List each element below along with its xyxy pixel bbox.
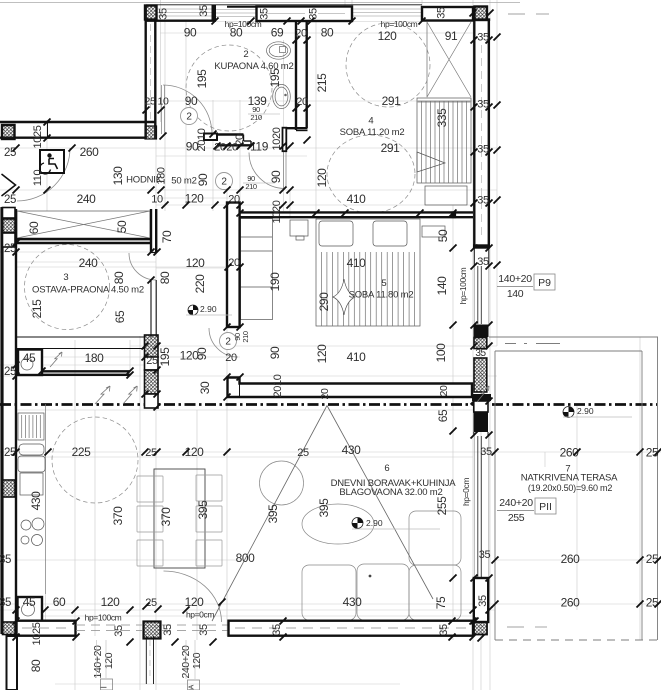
svg-text:5: 5 [381, 278, 386, 289]
svg-text:240: 240 [79, 256, 99, 270]
zigzag electrical symbols [50, 352, 62, 367]
svg-text:395: 395 [196, 500, 210, 520]
svg-text:120: 120 [185, 595, 205, 609]
svg-text:60: 60 [53, 595, 66, 609]
black band under top-right pier [473, 18, 490, 21]
svg-text:370: 370 [159, 507, 173, 527]
svg-text:35: 35 [113, 625, 125, 637]
svg-text:800: 800 [236, 551, 256, 565]
svg-text:215: 215 [315, 73, 329, 93]
svg-text:195: 195 [268, 68, 282, 88]
svg-text:2: 2 [243, 49, 248, 60]
horizontal dimension guide lines [156, 21, 475, 23]
svg-text:430: 430 [343, 595, 363, 609]
svg-text:hp=0cm: hp=0cm [186, 610, 214, 620]
svg-text:50: 50 [436, 229, 450, 242]
wall left-top vertical [144, 5, 146, 140]
window hp=0cm east [474, 436, 489, 578]
svg-text:30: 30 [198, 381, 212, 394]
east wall double lines upper [473, 20, 475, 248]
svg-text:260: 260 [80, 145, 100, 159]
svg-text:180: 180 [85, 351, 105, 365]
chair triangle room4 [417, 152, 445, 172]
svg-text:I: I [100, 686, 109, 688]
svg-text:hp=100cm: hp=100cm [225, 19, 262, 29]
svg-text:60: 60 [27, 221, 41, 234]
left wall bottom tail box [7, 636, 18, 690]
svg-text:25: 25 [297, 447, 309, 459]
svg-text:PII: PII [539, 501, 552, 513]
svg-text:430: 430 [29, 491, 43, 511]
svg-text:80: 80 [29, 659, 43, 672]
svg-text:1020: 1020 [271, 200, 283, 223]
svg-text:255: 255 [435, 496, 449, 516]
svg-text:120: 120 [378, 29, 398, 43]
svg-text:25: 25 [646, 596, 659, 610]
wall stub x150-156 [150, 209, 152, 253]
svg-text:1025: 1025 [32, 125, 44, 148]
bathroom south wall stub left [204, 134, 217, 141]
hatch pier (474,6.5) top-right [475, 7, 488, 21]
east wall white piece + black block y401-435 [474, 401, 488, 412]
svg-text:225: 225 [72, 445, 92, 459]
svg-text:180: 180 [156, 167, 168, 184]
dashed turning circles [25, 23, 431, 503]
svg-text:(19.20x0.50)=9.60 m2: (19.20x0.50)=9.60 m2 [528, 483, 613, 493]
svg-text:130: 130 [111, 166, 125, 186]
room5 bed [316, 219, 420, 326]
svg-text:410: 410 [347, 350, 367, 364]
svg-text:NATKRIVENA TERASA: NATKRIVENA TERASA [521, 473, 618, 484]
svg-text:90: 90 [185, 94, 198, 108]
svg-text:80: 80 [158, 271, 172, 284]
top band outer thin line [146, 4, 352, 6]
wardrobe room4 striped [417, 98, 471, 183]
svg-text:20: 20 [228, 257, 240, 269]
svg-text:35: 35 [477, 595, 489, 607]
terrace outline [489, 337, 658, 640]
desk room4 [425, 186, 467, 205]
svg-text:35: 35 [436, 7, 448, 19]
svg-text:210: 210 [245, 182, 257, 191]
svg-text:190: 190 [268, 272, 282, 292]
svg-text:25: 25 [646, 552, 659, 566]
svg-text:2: 2 [221, 177, 227, 188]
black pier x212 [212, 5, 217, 21]
svg-text:35: 35 [198, 5, 210, 17]
svg-text:260: 260 [561, 596, 581, 610]
svg-text:20: 20 [234, 134, 246, 146]
svg-text:BLAGOVAONA 32.00 m2: BLAGOVAONA 32.00 m2 [339, 487, 442, 498]
nightstands room5 [290, 220, 308, 236]
svg-text:260: 260 [561, 552, 581, 566]
dining chairs [137, 475, 222, 566]
svg-text:IA: IA [189, 684, 196, 690]
X brace top right room4 [427, 22, 471, 97]
entry arrow triangle [2, 174, 16, 196]
svg-text:hp=0cm: hp=0cm [461, 478, 471, 506]
black band y244.5-248.5 [473, 244, 490, 248]
svg-text:3: 3 [63, 272, 68, 283]
hodnik-ostava divider wall [16, 238, 151, 240]
hodnik closet X [17, 211, 150, 238]
hodnik north wall [0, 121, 156, 123]
svg-text:10: 10 [158, 96, 169, 108]
window hp=100cm east [474, 266, 489, 324]
wc niche box [18, 597, 43, 621]
east wall bottom white box y578-622 [474, 578, 488, 622]
door swing arcs [17, 85, 286, 622]
svg-text:75: 75 [434, 596, 448, 609]
white band w/ thick border x422-473 [422, 7, 473, 21]
svg-text:140+20: 140+20 [498, 273, 532, 285]
svg-text:80: 80 [112, 271, 126, 284]
window glass lines top left (bathroom) [157, 9, 422, 17]
svg-text:hp=100cm: hp=100cm [85, 613, 122, 623]
bathroom south wall right part [286, 127, 308, 129]
svg-text:2.90: 2.90 [366, 518, 383, 528]
svg-text:2010: 2010 [196, 128, 208, 151]
svg-text:430: 430 [342, 443, 362, 457]
svg-text:335: 335 [435, 108, 449, 128]
svg-text:35: 35 [271, 624, 283, 636]
niche fixture circles on top of wall boxes [22, 603, 35, 616]
svg-text:255: 255 [508, 512, 525, 524]
section line (dash-dot) y=404 [0, 403, 657, 406]
svg-text:140: 140 [507, 288, 524, 300]
svg-text:410: 410 [347, 256, 367, 270]
svg-text:90: 90 [195, 347, 209, 360]
svg-text:SOBA 11.80 m2: SOBA 11.80 m2 [349, 290, 414, 301]
room5 wardrobe [241, 219, 273, 320]
svg-text:91: 91 [445, 29, 458, 43]
dining table [154, 469, 205, 568]
east wall hatch y337-392 [474, 338, 487, 349]
svg-text:240+20: 240+20 [499, 497, 533, 509]
stepped wall north of kitchen niche [228, 378, 473, 398]
svg-text:50: 50 [115, 220, 129, 233]
top wall inner thick line [145, 20, 217, 22]
svg-text:69: 69 [271, 26, 284, 40]
bathroom south wall double line [217, 133, 244, 135]
svg-text:195: 195 [195, 69, 209, 89]
svg-text:25: 25 [145, 597, 157, 609]
svg-text:120: 120 [185, 445, 205, 459]
gray dashes sliding door opening [76, 625, 230, 631]
wall between hodnik/living and room5 [227, 203, 240, 328]
svg-text:290: 290 [317, 292, 331, 312]
svg-text:35: 35 [479, 549, 491, 561]
svg-text:120: 120 [315, 168, 329, 188]
svg-text:OSTAVA-PRAONA 4.50 m2: OSTAVA-PRAONA 4.50 m2 [32, 285, 144, 296]
svg-text:70: 70 [160, 230, 174, 243]
kitchen row [45, 404, 47, 594]
svg-text:210: 210 [241, 331, 250, 343]
svg-text:120: 120 [191, 652, 203, 669]
white boxes and hatch on left wall [3, 208, 16, 219]
svg-text:1025: 1025 [31, 622, 43, 645]
black junction block on divider wall [452, 211, 457, 218]
south band west part (1025) [17, 621, 76, 636]
svg-text:35: 35 [0, 597, 11, 609]
svg-text:SOBA 11.20 m2: SOBA 11.20 m2 [340, 127, 405, 138]
counter double wall 180 [42, 370, 130, 372]
svg-text:50 m2: 50 m2 [171, 176, 196, 187]
spot elevation markers 2.90 [188, 305, 198, 315]
south band main part x228-473 [229, 621, 474, 636]
svg-text:90: 90 [196, 173, 210, 186]
svg-text:110: 110 [32, 170, 44, 187]
vertical dimension guide lines [160, 0, 162, 122]
svg-text:119: 119 [250, 140, 269, 154]
svg-text:395: 395 [317, 498, 331, 518]
svg-text:35: 35 [162, 624, 174, 636]
svg-text:220: 220 [193, 274, 207, 294]
gray dashes near terrace bottom boxes [507, 626, 524, 628]
coffee table ellipse [302, 504, 374, 544]
svg-text:35: 35 [198, 624, 210, 636]
svg-text:100: 100 [434, 343, 448, 363]
svg-text:2: 2 [186, 112, 192, 123]
svg-text:25: 25 [146, 355, 158, 367]
svg-text:45: 45 [23, 351, 36, 365]
svg-text:35: 35 [480, 446, 492, 458]
svg-text:2: 2 [225, 337, 231, 348]
svg-text:25: 25 [145, 96, 156, 108]
sofa [302, 511, 461, 620]
hatch block bottom of that wall [145, 126, 157, 139]
bathroom door jamb column [283, 128, 287, 152]
small wc room bottom [22, 603, 35, 616]
svg-text:80: 80 [321, 26, 334, 40]
east wall black block y325-337 [474, 325, 489, 338]
niche box with 45 [18, 350, 42, 376]
svg-text:90: 90 [268, 346, 282, 359]
circle on diagonal [260, 461, 304, 505]
svg-text:140: 140 [435, 276, 449, 296]
bottom window label boxes [97, 640, 200, 690]
svg-text:240: 240 [77, 192, 97, 206]
bathroom WC [20, 42, 291, 616]
svg-text:35: 35 [477, 256, 489, 268]
svg-text:90: 90 [184, 26, 197, 40]
svg-text:20: 20 [319, 388, 331, 399]
svg-text:2.90: 2.90 [577, 406, 594, 416]
svg-text:291: 291 [382, 94, 402, 108]
svg-text:370: 370 [111, 506, 125, 526]
living room V diagonals [212, 406, 433, 622]
svg-text:2.90: 2.90 [200, 304, 217, 314]
white band w/ thick border x256-352 [257, 7, 353, 22]
svg-text:120: 120 [103, 652, 115, 669]
black stub to east wall [472, 394, 491, 401]
svg-text:4: 4 [368, 116, 373, 127]
svg-text:6: 6 [384, 463, 389, 474]
svg-text:35: 35 [0, 554, 11, 566]
svg-text:395: 395 [266, 504, 280, 524]
hatch pier column x145-158 [145, 335, 159, 357]
svg-text:120: 120 [315, 344, 329, 364]
svg-text:35: 35 [259, 8, 271, 20]
svg-text:90: 90 [269, 170, 283, 183]
svg-text:2010: 2010 [272, 374, 284, 397]
hatch pier square on south opening [144, 622, 161, 639]
svg-text:20: 20 [228, 194, 240, 206]
svg-text:291: 291 [381, 141, 401, 155]
room4-room5 divider wall [240, 211, 473, 213]
svg-text:20: 20 [225, 352, 237, 364]
hatch pier top-left (146,5) [145, 6, 157, 20]
svg-text:25: 25 [4, 194, 16, 206]
svg-text:hp=100cm: hp=100cm [381, 19, 418, 29]
svg-text:410: 410 [347, 192, 367, 206]
svg-text:hp=100cm: hp=100cm [458, 267, 468, 304]
svg-text:65: 65 [113, 310, 127, 323]
jambs of window 35 gap [473, 248, 475, 266]
svg-text:35: 35 [438, 624, 450, 636]
svg-text:35: 35 [158, 8, 170, 20]
hatch pier left end [2, 125, 15, 139]
star deco on bed [333, 279, 355, 315]
room3 east wall below door [150, 280, 152, 337]
svg-text:10: 10 [151, 194, 163, 206]
svg-text:195: 195 [158, 347, 172, 367]
wheelchair accessibility box [40, 150, 64, 174]
svg-text:210: 210 [250, 113, 262, 122]
svg-text:120: 120 [186, 256, 206, 270]
svg-text:120: 120 [101, 595, 121, 609]
svg-text:35: 35 [475, 348, 486, 359]
room3 south thin lines [16, 336, 145, 338]
bathroom east wall [295, 21, 297, 130]
svg-text:20: 20 [438, 385, 450, 396]
east wall bottom hatch pier [474, 622, 487, 635]
svg-text:215: 215 [30, 299, 44, 319]
svg-text:65: 65 [436, 409, 450, 422]
svg-text:P9: P9 [538, 277, 551, 289]
left outer wall upper segment [0, 207, 3, 634]
